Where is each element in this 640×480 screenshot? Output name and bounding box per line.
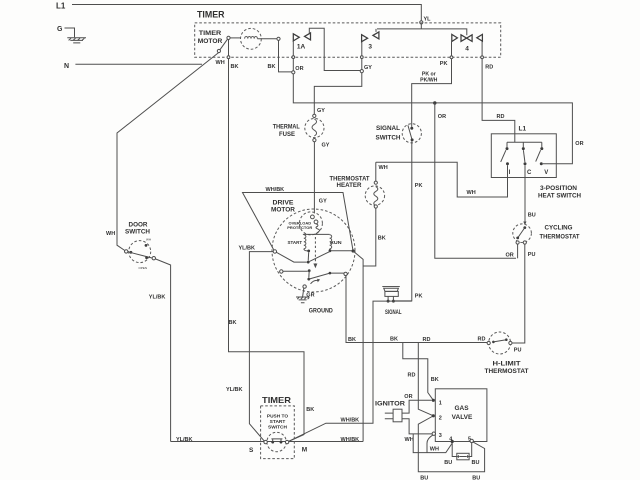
svg-text:4: 4	[465, 46, 469, 53]
signal switch	[376, 124, 422, 143]
svg-text:FUSE: FUSE	[279, 132, 295, 138]
label BU	[528, 212, 536, 218]
svg-text:BK: BK	[231, 64, 239, 70]
svg-text:CYCLING: CYCLING	[545, 225, 573, 232]
svg-text:GROUND: GROUND	[309, 309, 334, 315]
svg-text:N: N	[64, 63, 69, 70]
wire WH from timer motor down-left to door switch	[117, 52, 219, 250]
svg-text:VALVE: VALVE	[452, 414, 473, 421]
label WH door	[106, 231, 115, 237]
wire WH/BK quad over motor	[243, 193, 354, 252]
wire WH ignitor to pin 3	[402, 419, 432, 434]
signal buzzer	[382, 287, 401, 317]
svg-text:PK/WH: PK/WH	[420, 78, 438, 84]
svg-text:GY: GY	[322, 143, 330, 149]
wire YL/BK from contact 1 to push-to-start S	[249, 252, 273, 442]
label TIMER MOTOR	[198, 31, 223, 45]
labels WH/BK	[341, 417, 360, 443]
switch 4 contacts	[452, 34, 483, 52]
bottom bus wire	[171, 441, 364, 443]
3-position heat switch box	[491, 134, 556, 178]
wire RD down to gas valve pin 2 and BU rail	[418, 343, 484, 472]
svg-text:H-LIMIT: H-LIMIT	[493, 362, 521, 368]
svg-text:BK: BK	[431, 377, 439, 383]
label WH/BK top	[266, 187, 285, 193]
svg-text:WH/BK: WH/BK	[341, 417, 360, 423]
wire OR bus from 1A down, right, to heat switch V side	[293, 74, 572, 164]
svg-text:TIMER: TIMER	[199, 31, 222, 37]
svg-text:3: 3	[368, 44, 372, 51]
svg-text:SIGNAL: SIGNAL	[385, 310, 402, 316]
label WH	[405, 437, 414, 443]
labels timer box terminals	[216, 60, 494, 84]
label BK mid	[229, 320, 237, 326]
wire BK jog to gas valve pin 1	[403, 343, 433, 400]
svg-text:GY: GY	[364, 65, 372, 71]
svg-text:WH: WH	[216, 60, 225, 66]
svg-text:SWITCH: SWITCH	[268, 425, 287, 431]
svg-text:RD: RD	[478, 337, 486, 343]
wire switch 1A right bracket to GY junction	[309, 28, 360, 70]
labels BU at sensor and rail	[420, 460, 480, 480]
label BK at push-to-start	[306, 407, 314, 413]
wire junction down right side to bottom bus	[353, 251, 363, 442]
svg-text:M: M	[302, 447, 307, 454]
svg-text:BK: BK	[268, 64, 276, 70]
labels RD BK near gas valve	[408, 372, 439, 383]
wire N to WH diagonal	[75, 63, 202, 65]
svg-text:G: G	[57, 26, 63, 33]
thermal fuse	[273, 114, 324, 141]
start winding	[288, 235, 311, 253]
wire YL bus inside timer box	[377, 24, 467, 35]
timer motor WH terminal	[217, 39, 227, 52]
svg-text:MOTOR: MOTOR	[271, 208, 296, 214]
svg-text:START: START	[288, 240, 303, 245]
wire RUN dot to junction	[331, 250, 351, 252]
gas valve box	[435, 389, 487, 443]
svg-text:3-POSITION: 3-POSITION	[540, 186, 577, 192]
svg-text:1A: 1A	[297, 43, 306, 50]
svg-text:THERMOSTAT: THERMOSTAT	[330, 176, 370, 182]
label RD at heat switch jog	[497, 114, 505, 120]
junction dot OR bus	[433, 101, 436, 104]
start and run winding bus	[303, 233, 330, 235]
wire signal box to WH/BK	[289, 301, 412, 441]
motor contact 1	[273, 250, 276, 253]
svg-text:YL/BK: YL/BK	[226, 387, 243, 393]
door switch	[125, 222, 156, 269]
wire GY thermal fuse to drive motor	[313, 142, 315, 214]
wire WH bus: thermostat heater to heat switch I	[376, 162, 508, 197]
svg-text:RD: RD	[485, 65, 493, 71]
label H-LIMIT THERMOSTAT	[485, 362, 529, 376]
svg-text:SWITCH: SWITCH	[376, 136, 401, 142]
svg-text:THERMOSTAT: THERMOSTAT	[485, 369, 529, 375]
svg-text:WH: WH	[467, 190, 476, 196]
ignitor	[375, 402, 406, 422]
node N label	[64, 63, 69, 70]
wire switch 3 right bracket to YL bus	[375, 29, 377, 32]
flame sensor between pins 4 and 5	[452, 443, 472, 460]
svg-text:GY: GY	[319, 199, 327, 205]
svg-text:SIGNAL: SIGNAL	[376, 126, 400, 132]
svg-text:BU: BU	[420, 476, 428, 480]
svg-text:DOOR: DOOR	[129, 222, 149, 228]
junction circle OR/BK	[292, 71, 295, 74]
svg-text:PK: PK	[415, 183, 423, 189]
svg-text:PUSH TO: PUSH TO	[267, 413, 289, 419]
label GY at motor	[319, 199, 327, 205]
wire L1 rail to timer box top	[72, 5, 421, 21]
timer motor coil M1	[227, 28, 280, 49]
svg-text:2: 2	[439, 416, 442, 422]
svg-text:PK: PK	[440, 61, 448, 67]
labels on bottom bus	[348, 337, 485, 344]
wire OR from bus junction down to cycling thermostat	[435, 103, 516, 258]
label OR	[404, 394, 412, 400]
svg-text:GY: GY	[317, 108, 325, 114]
label WH near heat switch	[467, 190, 476, 196]
wire BK coil right node to OR junction	[279, 40, 292, 72]
switch 1A contacts	[293, 33, 310, 50]
svg-text:OR: OR	[506, 252, 514, 258]
wire WH branch to pin 4	[413, 434, 452, 453]
thermostat heater	[330, 162, 385, 208]
svg-text:WH/BK: WH/BK	[266, 187, 285, 193]
svg-text:BK: BK	[229, 320, 237, 326]
svg-text:GAS: GAS	[454, 405, 469, 412]
svg-text:BK: BK	[306, 407, 314, 413]
svg-text:YL/BK: YL/BK	[149, 295, 166, 301]
svg-text:YL/BK: YL/BK	[239, 246, 256, 252]
wire BK from timer motor left node down and to push-to-start M	[229, 40, 305, 442]
label YL	[424, 16, 432, 22]
svg-text:WH: WH	[379, 165, 388, 171]
svg-text:TIMER: TIMER	[262, 395, 291, 405]
push-to-start switch	[261, 406, 295, 459]
svg-text:TIMER: TIMER	[197, 10, 225, 20]
svg-text:START: START	[270, 419, 286, 425]
svg-text:1: 1	[439, 400, 442, 406]
label TIMER (top)	[197, 10, 225, 20]
motor ground terminal	[296, 285, 309, 303]
drive motor dashed circle	[272, 209, 355, 292]
label YL/BK bottom	[176, 437, 193, 443]
wire GY from junction to thermal fuse	[314, 73, 362, 115]
svg-text:OR: OR	[438, 114, 446, 120]
svg-text:IGNITOR: IGNITOR	[375, 402, 406, 408]
motor contact 2 and row 2	[280, 269, 348, 280]
svg-text:OR: OR	[575, 141, 583, 147]
svg-text:L1: L1	[56, 2, 66, 11]
wire RD from switch 4 to heat switch L1	[481, 41, 515, 142]
svg-text:RD: RD	[408, 372, 416, 378]
node L1 terminal circle on timer box top	[420, 21, 423, 24]
label YL/BK mid	[226, 387, 243, 393]
svg-text:RD: RD	[497, 114, 505, 120]
svg-text:PU: PU	[528, 252, 536, 258]
wire switch 3 left terminal down to GY junction	[360, 42, 363, 70]
labels GR GROUND	[306, 292, 333, 314]
node L1 label	[56, 2, 66, 11]
gas valve pin dots	[432, 399, 474, 443]
label OR right vertical	[575, 141, 583, 147]
labels GY at thermal fuse	[317, 108, 330, 149]
svg-text:WH: WH	[430, 447, 439, 453]
label 3-POSITION HEAT SWITCH	[538, 186, 581, 200]
svg-text:THERMAL: THERMAL	[273, 125, 300, 131]
svg-text:YL/BK: YL/BK	[176, 437, 193, 443]
label PK at buzzer	[415, 294, 423, 300]
svg-text:WH: WH	[405, 437, 414, 443]
label WH on bus	[379, 165, 388, 171]
svg-text:DRIVE: DRIVE	[273, 200, 294, 206]
wire YL/BK door switch down to bottom bus	[155, 259, 170, 442]
svg-text:3: 3	[439, 433, 442, 439]
svg-text:PK: PK	[415, 294, 423, 300]
junction circle GY	[360, 70, 363, 73]
label PU at h-limit	[514, 348, 522, 354]
timer box (dashed)	[195, 23, 501, 57]
label OR below junction	[438, 114, 446, 120]
wire BK/RD bottom bus to h-limit	[346, 276, 487, 343]
motor start switch row 1	[276, 251, 330, 263]
push-to-start timer label	[262, 395, 291, 405]
label PK mid	[415, 183, 423, 189]
label L1 at heat switch	[519, 126, 527, 133]
svg-text:L1: L1	[519, 126, 527, 133]
wire BK thermostat heater down to motor BK	[363, 208, 376, 266]
overload protector	[287, 212, 322, 235]
h-limit thermostat	[487, 332, 512, 354]
wire switch 1A left terminal down	[292, 41, 295, 71]
wire OR ignitor to pin 1	[402, 400, 432, 413]
svg-text:THERMOSTAT: THERMOSTAT	[540, 233, 580, 240]
centrifugal arrow	[311, 279, 321, 284]
svg-text:SWITCH: SWITCH	[125, 230, 150, 236]
svg-text:OR: OR	[295, 66, 303, 72]
svg-text:HEAT SWITCH: HEAT SWITCH	[538, 194, 581, 200]
svg-text:YL: YL	[424, 16, 432, 22]
motor shaft dashed arrow	[313, 237, 317, 268]
label BK	[378, 236, 386, 242]
cycling thermostat	[513, 224, 580, 244]
svg-text:BU: BU	[472, 460, 480, 466]
ground G	[57, 26, 86, 43]
wire PK from switch 4 to signal switch	[412, 42, 453, 127]
svg-text:PU: PU	[514, 348, 522, 354]
svg-text:C: C	[527, 170, 532, 176]
svg-text:BK: BK	[378, 236, 386, 242]
label YL/BK door	[149, 295, 166, 301]
svg-text:BK: BK	[390, 337, 398, 343]
svg-text:RD: RD	[423, 337, 431, 343]
svg-text:BK: BK	[348, 337, 356, 343]
wire cycling left terminal to OR	[517, 244, 519, 258]
svg-text:OPEN: OPEN	[139, 266, 148, 270]
svg-text:S: S	[249, 447, 254, 454]
terminal circle BK on timer box bottom	[227, 56, 230, 59]
run winding	[329, 235, 342, 252]
junction dot RUN/WHBK	[352, 249, 355, 252]
label YL/BK	[239, 246, 256, 252]
svg-text:MOTOR: MOTOR	[198, 39, 223, 45]
label DRIVE MOTOR	[271, 200, 296, 213]
label WH	[430, 447, 439, 453]
labels OR PU	[506, 252, 536, 258]
svg-text:WH: WH	[106, 231, 115, 237]
svg-text:BU: BU	[444, 460, 452, 466]
svg-text:PROTECTOR: PROTECTOR	[287, 225, 312, 230]
labels S and M	[249, 447, 307, 454]
switch 3 contacts	[362, 32, 379, 51]
wire PK signal switch to buzzer	[395, 141, 412, 301]
wire C to cycling thermostat (BU)	[523, 165, 526, 225]
svg-text:V: V	[544, 170, 548, 176]
svg-text:BU: BU	[472, 476, 480, 480]
svg-text:OR: OR	[404, 394, 412, 400]
svg-text:WH: WH	[146, 238, 151, 242]
svg-text:BU: BU	[528, 212, 536, 218]
svg-text:HEATER: HEATER	[337, 183, 363, 189]
wire PU cycling to h-limit	[512, 244, 525, 343]
svg-text:GR: GR	[306, 292, 314, 298]
